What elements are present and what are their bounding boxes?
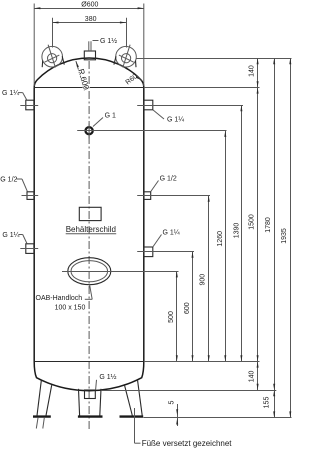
svg-text:Behälterschild: Behälterschild [66,225,116,234]
dim line 1500 with 140 top and 140 bottom [248,58,258,391]
svg-text:1260: 1260 [217,231,224,247]
label G 1 1/2 bottom [96,373,117,390]
svg-text:Ø600: Ø600 [81,1,98,8]
nozzle G 1 1/4 bottom right [144,247,153,257]
nozzle G 1 front center [86,124,93,139]
svg-text:1390: 1390 [234,223,241,239]
svg-text:5: 5 [169,400,176,404]
svg-text:140: 140 [248,370,255,382]
svg-text:1500: 1500 [248,214,255,230]
top reference extension line [136,58,291,60]
shell right edge [143,87,145,361]
bottom nozzle G 1 1/2 [85,390,96,399]
label G 1 1/4 top left [2,90,27,100]
handhole oval inner [71,261,108,282]
svg-text:G 1/2: G 1/2 [160,176,177,183]
label G 1 [93,112,116,126]
svg-text:900: 900 [200,274,207,286]
svg-text:G 1½: G 1½ [99,373,116,381]
svg-text:1935: 1935 [281,228,288,244]
label Behaelterschild [66,225,117,234]
svg-text:G 1¼: G 1¼ [2,232,19,239]
dimension 380 [52,16,126,47]
svg-text:G 1½: G 1½ [100,37,117,45]
extension line from G 1 [77,130,226,132]
svg-text:Füße versetzt gezeichnet: Füße versetzt gezeichnet [142,439,233,448]
bottom weld seam [34,361,144,363]
nozzle G 1/2 right [144,192,151,200]
nozzle G 1 1/4 top left [20,100,38,110]
centerline vertical axis [88,61,90,431]
dim line 600 [184,252,194,362]
extension line from bottom right nozzle [137,251,194,253]
label Fuesse versetzt gezeichnet [135,408,233,448]
dim line 1260 [217,131,226,362]
label G 1 1/4 bottom right [153,230,180,248]
leg center [78,389,103,417]
bottom dished head [34,362,144,391]
label G 1 1/4 top right [153,110,184,124]
nameplate rectangle [79,207,101,220]
dimension diameter 600 [34,1,144,86]
svg-text:G 1/2: G 1/2 [0,177,17,184]
extension line from handhole [62,271,179,273]
label OAB-Handloch leader [85,285,92,300]
svg-text:100 x 150: 100 x 150 [55,305,86,312]
extension line from top right nozzle [137,105,243,107]
dim line 1935 [281,58,291,418]
nozzle G 1 1/4 bottom left [20,244,38,254]
shell left edge [33,87,35,361]
floor line [143,417,291,419]
svg-text:G 1¼: G 1¼ [167,117,184,124]
svg-text:G 1¼: G 1¼ [2,90,19,97]
extension line from right G 1/2 [137,195,210,197]
svg-text:G 1¼: G 1¼ [163,230,180,237]
nozzle G 1 1/4 top right [144,100,153,110]
svg-text:1780: 1780 [265,217,272,233]
dim line 1390 [234,105,243,362]
dim line 1780 with 155 [264,58,276,418]
svg-text:380: 380 [85,16,97,23]
leg right [120,381,144,417]
svg-text:600: 600 [184,302,191,314]
top weld seam [34,87,144,89]
svg-text:155: 155 [264,397,271,409]
nozzle G 1/2 left [22,192,39,200]
label G 1/2 left [0,177,27,192]
svg-text:500: 500 [168,311,175,323]
vessel bottom extension line [102,390,276,392]
label R 600 [76,61,91,91]
label G 1 1/4 bottom left [2,232,27,244]
bottom weld extension line [144,361,260,363]
dim line 500 [168,271,178,361]
label G 1 1/2 top [93,37,118,45]
svg-text:G 1: G 1 [105,112,116,119]
leg left [33,381,52,429]
lifting lug right [114,45,136,68]
dim line 900 [200,196,210,362]
lifting lug left [42,45,64,68]
svg-text:OAB-Handloch: OAB-Handloch [36,295,83,302]
handhole oval outer [68,258,111,285]
label R60 [125,73,142,86]
label G 1/2 right [151,176,177,192]
top weld extension line [144,87,260,89]
top dished head [34,58,144,87]
svg-text:140: 140 [248,65,255,77]
nozzle G 1 1/2 top [84,41,95,60]
dim 5 foot plate [169,400,179,426]
